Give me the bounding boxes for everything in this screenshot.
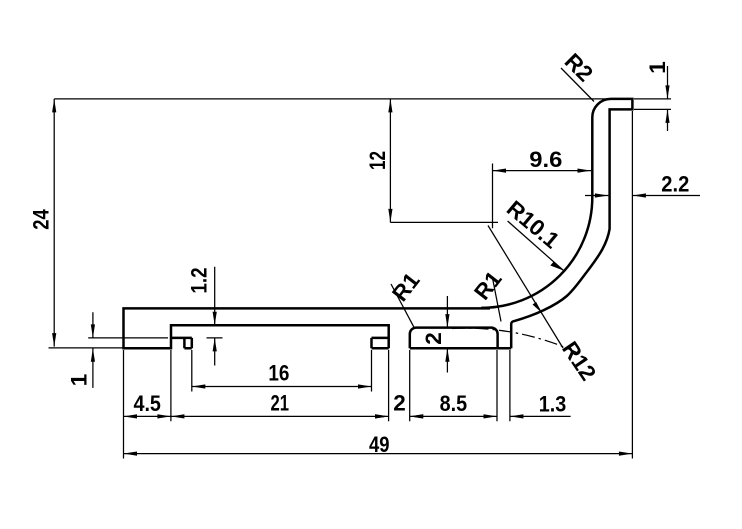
svg-text:2: 2 — [393, 391, 406, 416]
svg-text:4.5: 4.5 — [133, 391, 161, 416]
leader line R2 — [561, 68, 594, 102]
svg-text:1.3: 1.3 — [539, 392, 567, 417]
arrowheads dim 9.6 — [493, 169, 507, 173]
bottom dims row — [124, 350, 510, 459]
arrowheads dim 21 — [171, 414, 185, 418]
profile: slot plate bottom, open notch and left foot — [171, 338, 192, 348]
dim 1 left — [88, 312, 168, 388]
svg-text:12: 12 — [365, 151, 390, 170]
profile: bottom surface from pad to cove foot — [410, 347, 511, 350]
svg-text:1: 1 — [67, 374, 92, 387]
profile: slot plate right foot — [372, 338, 389, 348]
svg-text:1: 1 — [645, 61, 670, 74]
dim 24 vertical — [53, 99, 55, 347]
arrowheads dim 1 (top right, outside) — [665, 85, 669, 99]
arrowhead leader R10.1 — [550, 262, 563, 271]
svg-text:16: 16 — [268, 361, 289, 386]
arrowheads dim 1.2 (outside) — [213, 312, 217, 326]
dim 9.6 — [493, 164, 592, 229]
bottom ref line left — [49, 347, 124, 349]
arrowheads dim 2.2 (outside) — [595, 193, 609, 197]
arrowheads dim 4.5 — [124, 414, 138, 418]
dim 2 pad height — [446, 296, 448, 373]
svg-text:24: 24 — [29, 209, 54, 230]
arrowheads dim 16 — [192, 384, 206, 388]
arrowhead dim 1.3 — [510, 414, 524, 418]
arrowheads dim 49 — [124, 452, 138, 456]
arrowhead leader R12 — [533, 302, 543, 313]
arrowheads dim 2 pad height (outside) — [445, 314, 449, 328]
svg-text:9.6: 9.6 — [529, 147, 562, 172]
svg-text:49: 49 — [369, 432, 390, 457]
dim 2.2 — [585, 195, 700, 197]
arrowheads dim 12 — [388, 99, 392, 113]
leader line R12 — [488, 226, 563, 349]
dim 1 top right — [634, 66, 671, 131]
arrowheads dim 8.5 — [410, 414, 424, 418]
profile outline: base top surface, left edge, bottom, slot plate — [124, 308, 491, 348]
profile: cove wall (foot, outer R12 curve, top lip with 1x2.2 step, R2 fillet, inner R10.1 arc) — [481, 99, 632, 348]
profile: raised pad (8.5 wide, 2 tall, R1 corners) — [410, 328, 498, 349]
arrowheads dim 24 — [52, 99, 56, 113]
long right extension (2.2 / 1 / 49) — [631, 111, 633, 459]
svg-text:8.5: 8.5 — [440, 391, 468, 416]
svg-text:1.2: 1.2 — [187, 268, 212, 294]
dimension lines (thin) — [49, 66, 701, 459]
svg-text:21: 21 — [271, 391, 290, 416]
top extension line — [54, 98, 611, 100]
svg-text:2: 2 — [421, 332, 446, 345]
arrowheads — [52, 85, 670, 455]
leader line R1 right — [493, 278, 502, 322]
arrowheads dim 1 (left, outside) — [91, 324, 95, 338]
leader line R10.1 — [508, 221, 564, 271]
dim 1.2 — [207, 267, 223, 366]
leader line R1 left — [391, 284, 414, 327]
phantom dash-dot tangent line — [452, 328, 579, 353]
dim 12 — [390, 99, 498, 222]
svg-text:2.2: 2.2 — [661, 172, 689, 197]
arrowheads dim 2 slot (outside) — [375, 414, 389, 418]
